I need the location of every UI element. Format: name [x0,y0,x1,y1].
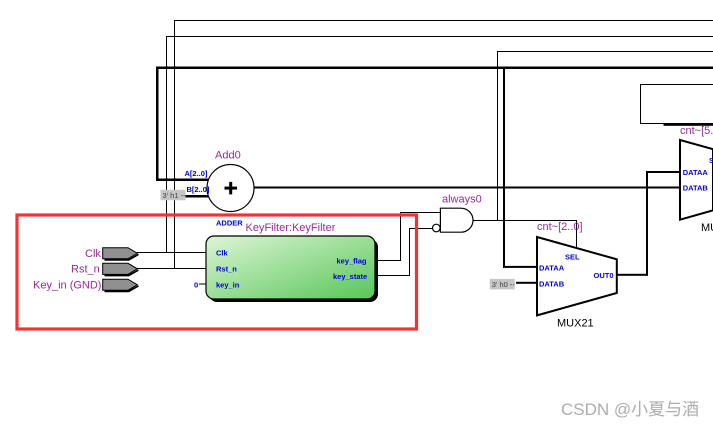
wire rst_n vertical [174,20,175,269]
wire top mux DATAA horizontal [646,171,680,173]
wire key_state horizontal from block [375,275,410,276]
svg-text:cnt~[5..0]: cnt~[5..0] [680,125,713,137]
red highlight rectangle [17,215,417,329]
svg-text:Rst_n: Rst_n [216,264,237,273]
svg-text:OUT0: OUT0 [594,271,614,280]
wire rst_n into KeyFilter [137,268,207,269]
input pin Key_in (GND) [103,279,139,292]
wire 3'h0 to MUX21 DATAB [516,282,538,284]
svg-text:key_flag: key_flag [337,257,367,266]
svg-text:3' h0 --: 3' h0 -- [492,280,516,289]
wire register input bus stub [664,123,713,126]
svg-text:DATAA: DATAA [539,264,565,273]
svg-text:3' h1 --: 3' h1 -- [163,191,187,200]
wire clk top horizontal [166,36,713,37]
wire cnt feedback bus horizontal [156,67,713,70]
svg-text:Key_in (GND): Key_in (GND) [33,280,101,292]
svg-text:CSDN @小夏与酒: CSDN @小夏与酒 [561,400,699,419]
wire cnt feedback bus vertical [156,67,159,181]
input pin Clk [103,248,139,261]
svg-text:B[2..0]: B[2..0] [187,185,210,194]
constant 3'h1 box [161,190,186,201]
module KeyFilter green block [206,236,375,299]
wire adder A input bus [156,179,209,182]
svg-text:0: 0 [194,280,198,289]
wire SEL vertical into MUX21 [576,220,577,249]
wire key_flag horizontal from block [375,260,401,261]
svg-text:DATAA: DATAA [683,168,709,177]
svg-text:DATAB: DATAB [683,183,709,192]
svg-text:SEL: SEL [709,156,713,165]
wire key_flag vertical [400,212,401,261]
wire key_state into AND bubble input [409,228,433,229]
wire cnt bus branch to MUX21 DATAA vertical [503,67,505,267]
mux MUX21 body [537,237,617,315]
svg-text:key_in: key_in [216,280,240,289]
wire clk vertical [166,36,167,253]
svg-text:ADDER: ADDER [216,219,243,228]
svg-text:Clk: Clk [216,249,229,258]
and gate always0 body [440,208,473,232]
svg-text:MUX21: MUX21 [701,222,713,234]
wire always0 out to right [497,51,713,52]
svg-text:Clk: Clk [85,248,101,260]
wire MUX21 DATAA horizontal [503,266,538,268]
svg-text:MUX21: MUX21 [557,318,594,330]
adder Add0 circle [207,165,254,212]
wire MUX21 OUT0 horizontal [617,274,648,276]
adder plus sign [225,187,238,190]
svg-text:Rst_n: Rst_n [71,264,100,276]
wire adder B input bus [186,195,209,198]
wire Add0 output bus to DATAB [253,187,713,189]
wire clk into KeyFilter [137,252,207,253]
svg-text:Add0: Add0 [215,150,241,162]
module KeyFilter green block shadow [209,239,378,302]
svg-text:A[2..0]: A[2..0] [185,169,208,178]
constant 3'h0 box [490,279,515,290]
and gate inverter bubble [433,224,441,232]
svg-text:key_state: key_state [333,272,367,281]
mux cnt top (clipped) body [680,140,713,220]
svg-text:always0: always0 [442,194,482,206]
wire OUT0 feedback vertical [646,171,648,276]
svg-text:cnt~[2..0]: cnt~[2..0] [537,221,583,233]
svg-text:SEL: SEL [565,253,580,262]
svg-text:KeyFilter:KeyFilter: KeyFilter:KeyFilter [246,222,336,234]
register cnt rectangle (clipped) [641,85,713,124]
wire always0 output horizontal [472,220,577,221]
wire always0 out vertical branch [497,51,498,220]
wire rst_n top horizontal [174,20,713,21]
wire key_state vertical [409,228,410,276]
input pin Rst_n [103,263,139,276]
svg-text:DATAB: DATAB [539,280,565,289]
wire key_flag into AND top input [400,212,441,213]
